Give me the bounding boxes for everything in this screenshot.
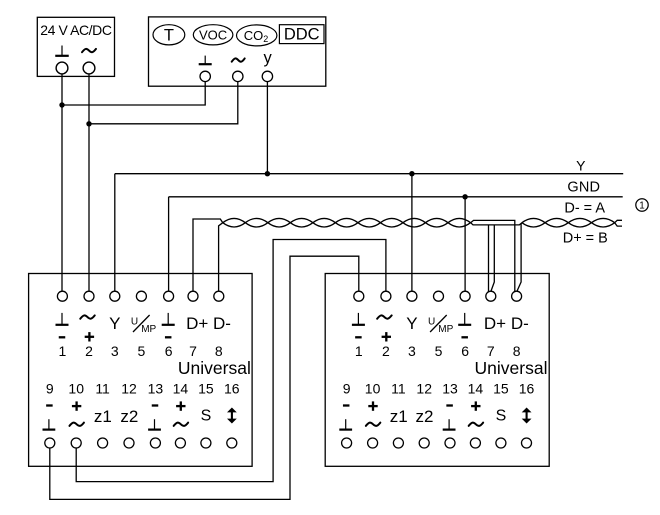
svg-text:11: 11 — [95, 381, 110, 397]
wire sensor ground tap — [62, 82, 205, 105]
sensor option VOC oval — [193, 25, 233, 45]
svg-text:1: 1 — [59, 343, 67, 359]
svg-text:D- = A: D- = A — [564, 200, 605, 216]
controller A terminal 6 — [162, 291, 175, 359]
svg-text:MP: MP — [141, 324, 156, 335]
sensor option CO2 oval — [237, 25, 277, 46]
controller B terminal 5 — [428, 291, 454, 359]
controller B terminal 16 — [519, 381, 535, 449]
controller B terminal 14 — [468, 381, 484, 449]
svg-text:S: S — [201, 408, 212, 425]
svg-text:12: 12 — [121, 381, 137, 397]
controller A terminal 2 — [80, 291, 95, 359]
junction dot Y at controller B drop — [409, 171, 414, 176]
controller A terminal 9 — [43, 381, 56, 449]
label D- = A — [564, 200, 605, 216]
svg-text:U: U — [131, 317, 138, 328]
wire 24V AC rail to controller A terminal 2 — [88, 74, 90, 291]
svg-text:Y: Y — [406, 314, 417, 333]
svg-text:z1: z1 — [94, 407, 112, 426]
label GND — [567, 179, 600, 195]
twisted pair cable section 2 — [522, 218, 622, 227]
svg-text:8: 8 — [215, 343, 223, 359]
power supply ground terminal — [56, 62, 68, 74]
svg-text:13: 13 — [148, 381, 164, 397]
svg-text:6: 6 — [165, 343, 173, 359]
svg-text:z2: z2 — [120, 407, 138, 426]
svg-text:8: 8 — [513, 343, 521, 359]
svg-text:3: 3 — [111, 343, 119, 359]
svg-text:13: 13 — [442, 381, 458, 397]
controller B terminal 10 — [365, 381, 381, 449]
controller A terminal 7 — [186, 291, 208, 359]
sensor ground terminal — [200, 71, 210, 81]
svg-text:10: 10 — [365, 381, 381, 397]
controller B terminal 8 — [511, 291, 529, 359]
svg-text:Y: Y — [109, 314, 120, 333]
svg-text:z2: z2 — [416, 407, 434, 426]
power supply 24 V AC/DC box — [37, 17, 114, 76]
svg-text:VOC: VOC — [199, 27, 227, 42]
svg-text:1: 1 — [639, 201, 644, 212]
svg-text:9: 9 — [46, 381, 54, 397]
svg-text:MP: MP — [438, 324, 453, 335]
svg-text:16: 16 — [519, 381, 535, 397]
svg-text:2: 2 — [382, 343, 390, 359]
label Y — [576, 157, 586, 173]
wire Y drop to controller B terminal 3 — [411, 174, 413, 292]
wire GND drop to controller B terminal 6 — [464, 197, 466, 291]
sensor ground symbol — [199, 56, 212, 65]
controller B terminal 6 — [458, 291, 471, 359]
junction dot Y at sensor drop — [265, 171, 270, 176]
power supply ground symbol — [55, 46, 69, 56]
controller A terminal 8 — [213, 291, 231, 359]
svg-text:5: 5 — [138, 343, 146, 359]
wire D- loop to controller B terminal 8 — [471, 220, 522, 291]
junction dot AC tap — [86, 121, 91, 126]
twisted pair cable section 1 — [223, 218, 471, 227]
controller B terminal 7 — [484, 291, 506, 359]
note 1 circled — [636, 199, 648, 212]
controller A terminal 10 — [68, 381, 84, 449]
svg-text:D+: D+ — [484, 314, 506, 333]
svg-text:GND: GND — [567, 179, 600, 195]
svg-text:Universal: Universal — [178, 358, 251, 378]
wire Y drop to controller A terminal 3 — [114, 174, 116, 292]
svg-text:T: T — [164, 26, 174, 44]
controller A terminal 15 — [198, 381, 214, 449]
label D+ = B — [563, 230, 608, 246]
sensor option DDC module — [279, 25, 324, 44]
svg-text:15: 15 — [493, 381, 509, 397]
svg-text:12: 12 — [416, 381, 432, 397]
svg-text:14: 14 — [468, 381, 484, 397]
svg-text:7: 7 — [189, 343, 197, 359]
wire 24V ground rail to controller A terminal 1 — [61, 74, 63, 291]
controller B terminal 13 — [442, 381, 458, 449]
controller A terminal 5 — [131, 291, 157, 359]
svg-text:24 V AC/DC: 24 V AC/DC — [40, 22, 112, 38]
svg-text:D+: D+ — [186, 314, 208, 333]
power supply AC symbol — [82, 49, 96, 52]
controller B terminal 12 — [416, 381, 434, 449]
svg-text:D+ = B: D+ = B — [563, 230, 608, 246]
controller A terminal 12 — [120, 381, 138, 449]
room sensor box — [149, 17, 326, 86]
sensor option T oval — [153, 25, 185, 45]
sensor AC terminal — [233, 71, 243, 81]
svg-text:11: 11 — [391, 381, 406, 397]
wire sensor y output drop — [266, 82, 268, 174]
svg-text:6: 6 — [461, 343, 469, 359]
controller A terminal 13 — [148, 381, 164, 449]
svg-text:16: 16 — [224, 381, 240, 397]
svg-text:U: U — [428, 317, 435, 328]
controller B terminal 9 — [339, 381, 352, 449]
controller B label Universal — [475, 358, 548, 378]
wire GND drop to controller A terminal 6 — [168, 197, 170, 291]
controller A label Universal — [178, 358, 251, 378]
svg-text:7: 7 — [487, 343, 495, 359]
svg-text:3: 3 — [408, 343, 416, 359]
controller A box — [29, 274, 253, 467]
sensor output label y — [263, 49, 272, 67]
wire D+ loop to controller B terminal 7 — [471, 223, 522, 292]
svg-text:DDC: DDC — [284, 26, 320, 44]
junction dot ground tap — [59, 102, 64, 107]
controller B terminal 1 — [352, 291, 365, 359]
controller B terminal 15 — [493, 381, 509, 449]
svg-text:15: 15 — [198, 381, 214, 397]
svg-text:z1: z1 — [390, 407, 408, 426]
wire GND bus — [169, 196, 623, 198]
svg-text:y: y — [263, 49, 272, 67]
sensor AC symbol — [232, 58, 245, 61]
svg-text:S: S — [496, 408, 507, 425]
svg-text:5: 5 — [435, 343, 443, 359]
junction dot GND at controller B drop — [462, 194, 467, 199]
svg-text:10: 10 — [68, 381, 84, 397]
controller A terminal 1 — [56, 291, 69, 359]
wire controller A terminal 10 to controller B terminal 2 — [76, 240, 386, 482]
power supply AC terminal — [83, 62, 95, 74]
controller B terminal 11 — [390, 381, 408, 449]
svg-text:D-: D- — [213, 314, 231, 333]
wire controller A terminal 9 to controller B terminal 1 — [50, 256, 359, 499]
controller B box — [325, 274, 549, 467]
wire sensor AC tap — [89, 82, 238, 124]
controller B terminal 2 — [377, 291, 392, 359]
svg-text:14: 14 — [173, 381, 189, 397]
controller A terminal 11 — [94, 381, 112, 449]
wire Y bus — [115, 173, 623, 175]
svg-text:1: 1 — [355, 343, 363, 359]
wire D+ from controller A terminal 7 — [193, 219, 223, 291]
svg-text:D-: D- — [511, 314, 529, 333]
sensor y output terminal — [262, 71, 272, 81]
svg-text:2: 2 — [85, 343, 93, 359]
controller A terminal 3 — [109, 291, 120, 359]
wire D- from controller A terminal 8 — [219, 223, 223, 292]
controller A terminal 14 — [173, 381, 189, 449]
controller A terminal 16 — [224, 381, 240, 449]
svg-text:Universal: Universal — [475, 358, 548, 378]
controller B terminal 3 — [406, 291, 417, 359]
svg-text:9: 9 — [343, 381, 351, 397]
svg-text:Y: Y — [576, 157, 586, 173]
